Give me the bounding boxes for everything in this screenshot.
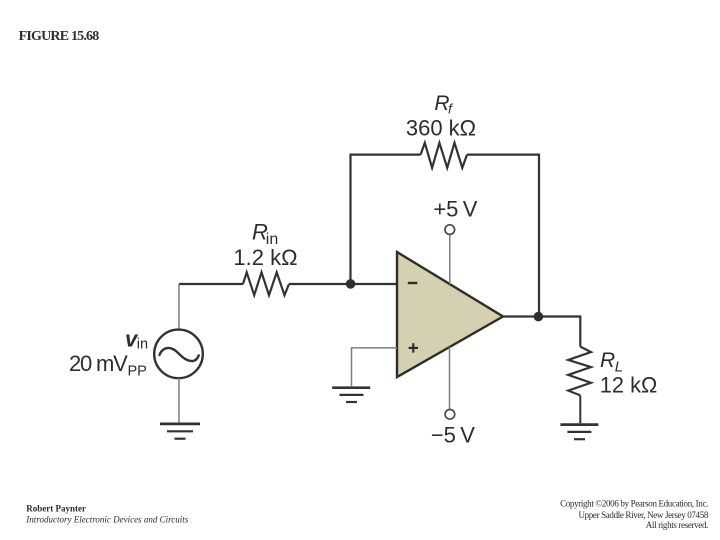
wire: feedback loop left vertical [351, 155, 421, 284]
wire: vin top lead [178, 284, 180, 330]
wire: feedback loop top right + right vertical [467, 155, 539, 317]
minus pin symbol [408, 282, 418, 284]
svg-text:PP: PP [128, 364, 147, 380]
svg-text:12 kΩ: 12 kΩ [600, 373, 658, 398]
resistor RL [568, 347, 591, 396]
node A dot [346, 279, 356, 289]
wire: input line right segment [289, 283, 397, 285]
junction dot (output node) [534, 312, 544, 322]
wire: -5V lead [449, 347, 451, 409]
wire: input line left segment [179, 283, 243, 285]
svg-text:20 mV: 20 mV [69, 351, 128, 376]
ground at + input [332, 388, 370, 402]
svg-text:Copyright ©2006 by Pearson Edu: Copyright ©2006 by Pearson Education, In… [560, 498, 708, 508]
svg-text:360 kΩ: 360 kΩ [406, 116, 476, 141]
resistor Rf [421, 143, 467, 168]
source vin [154, 330, 203, 379]
svg-text:Robert Paynter: Robert Paynter [26, 503, 86, 513]
plus pin symbol [409, 347, 418, 349]
-5V terminal [445, 410, 455, 420]
svg-text:Upper Saddle River, New Jersey: Upper Saddle River, New Jersey 07458 [578, 510, 708, 520]
resistor Rin [243, 272, 289, 295]
svg-text:FIGURE 15.68: FIGURE 15.68 [19, 29, 100, 44]
ground under vin [160, 424, 200, 439]
svg-text:Introductory Electronic Device: Introductory Electronic Devices and Circ… [25, 514, 188, 524]
wire: RL bottom lead [579, 395, 581, 423]
wire: +5V lead [449, 235, 451, 284]
footer right: copyright [560, 498, 709, 530]
wire: + input to ground [352, 348, 398, 386]
ground under RL [560, 425, 598, 440]
svg-text:+5 V: +5 V [433, 196, 477, 221]
svg-text:in: in [137, 337, 148, 353]
svg-text:R: R [600, 349, 615, 372]
svg-text:−5 V: −5 V [431, 423, 475, 448]
+5V terminal [445, 225, 455, 235]
svg-text:f: f [448, 101, 454, 117]
wire: output [503, 317, 580, 347]
wire: vin bottom lead [178, 378, 180, 423]
svg-text:1.2 kΩ: 1.2 kΩ [233, 245, 297, 270]
svg-text:All rights reserved.: All rights reserved. [646, 520, 708, 530]
op-amp U1 [397, 252, 503, 377]
